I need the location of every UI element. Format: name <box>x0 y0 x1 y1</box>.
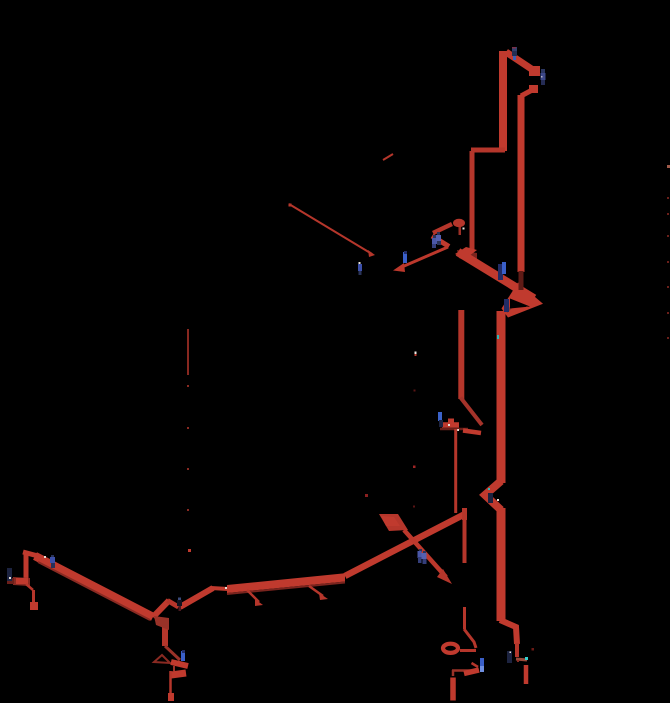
wire: chevron jog A8 <box>485 481 501 510</box>
wire: loop diagonal J2 <box>464 629 476 648</box>
wire: rise G4 <box>180 588 213 607</box>
node: right edge dots <box>667 165 670 339</box>
wire: small stub above cluster <box>472 663 479 667</box>
wire: big diagonal dark under edge <box>38 562 150 620</box>
wire: open triangle H3 <box>154 655 170 663</box>
wire: spur2 foot <box>319 593 328 600</box>
wire: spur2 F6 <box>309 586 323 596</box>
wire: horizontal jog A3 <box>471 148 505 153</box>
wire: main vertical pipe A7 lower <box>497 508 506 621</box>
wire: thin vertical E1 <box>458 310 464 399</box>
wire: loop horizontal J3 <box>460 649 476 652</box>
wire: cluster horizontal K1 <box>452 669 472 672</box>
wire: line2 vertical B2 <box>518 95 525 272</box>
node: white speck at blob <box>463 228 465 230</box>
figure: on bottom bar <box>181 650 185 661</box>
figure: at top apex <box>512 47 517 60</box>
figure: horizontal bar end <box>438 412 443 427</box>
node: white speck bar2 <box>457 429 459 431</box>
node: white-red speck <box>415 352 417 355</box>
node: white speck bar1 <box>448 424 450 426</box>
wire: thin vertical J1 <box>463 607 466 629</box>
node: fall dots col x414 <box>414 390 416 392</box>
node: far left head dot <box>9 577 11 579</box>
wire: V branch H1 <box>162 618 168 646</box>
figure: far left navy <box>7 568 12 581</box>
wire: small vertical G10 <box>32 590 35 603</box>
wire: crossing arrow start blob F3a <box>379 514 408 531</box>
wire: thin vertical I1 <box>463 516 467 563</box>
wire: thin diagonal foot <box>368 250 375 257</box>
wire: line2 hook B1 <box>521 89 534 96</box>
node: fall dot bright <box>188 549 191 552</box>
wire: loop ring J4 <box>443 644 458 653</box>
wire: crossing arrow bright part <box>381 516 400 526</box>
wire: hairpin black notch <box>510 299 530 309</box>
wire: line2 hook end block <box>529 85 538 93</box>
figure: chevron navy <box>488 493 493 503</box>
figure: standalone left <box>358 262 362 275</box>
node: red dot in notch <box>526 307 528 309</box>
wire: plateau G5 <box>211 588 228 589</box>
node: cyan speck bottom hook <box>525 657 528 660</box>
wire: foot blob G11 <box>30 602 38 610</box>
figure: on notch <box>177 598 182 612</box>
wire: thick bar2 H6 <box>171 673 186 675</box>
figure: right of top diagonal <box>541 69 546 85</box>
wire: steep diagonal F1 <box>345 515 464 577</box>
figure: near bottom jog navy <box>507 651 512 663</box>
figure: on big left diagonal <box>50 555 55 568</box>
wire: crossing arrowhead F3c <box>437 569 452 584</box>
node: dim red dot mid <box>365 494 368 497</box>
wire: fat stub K2 <box>464 670 479 674</box>
wire: bottom jog A9 <box>500 620 517 644</box>
wire: gentle path F4 <box>227 573 345 593</box>
figure: on arrow shaft <box>403 251 407 263</box>
wire: small dash D2 <box>383 154 393 160</box>
wire: line2 dark lower <box>519 271 524 290</box>
wire: thin vertical E6 <box>454 429 457 513</box>
wire: left top bar G5b <box>23 552 38 556</box>
wire: left junction blob G7 <box>13 577 30 586</box>
node: cyan speck on pipe <box>497 335 499 339</box>
wire: bottom narrow A9b <box>515 643 519 657</box>
wire: big diagonal A5 <box>458 252 534 299</box>
wire: notch step G3 <box>168 601 179 608</box>
wire: main vertical pipe A1 top <box>499 51 507 151</box>
wire: thin diag G9 <box>26 584 33 590</box>
node: white speck chevron <box>497 499 499 501</box>
wire: connector H5 <box>173 666 175 671</box>
figure: bottom middle blue <box>480 658 484 672</box>
wire: gentle path under-edge <box>227 583 345 595</box>
wire: bottom thin vertical H7 <box>169 671 172 694</box>
node: fall dots <box>187 385 189 511</box>
node: red dot below hook <box>517 660 519 662</box>
node: dark speck right of ring <box>532 648 535 651</box>
wire: bottom hook A9c <box>516 659 527 660</box>
wire: junction bend bright <box>455 247 477 259</box>
wire: top bend diagonal A2 <box>506 52 536 72</box>
node: white speck plateau <box>225 587 227 589</box>
figure: at hairpin <box>504 299 509 312</box>
wire: diagonal top edge block F2 <box>462 508 467 520</box>
node: white speck left bar <box>44 556 46 558</box>
wire: main vertical pipe A7 upper <box>497 311 506 483</box>
wire: Z band lower C1b <box>432 236 449 247</box>
wire: hairpin dark stripe <box>507 303 517 313</box>
wire: arrow shaft C2 <box>403 247 448 267</box>
wire: V rise G2 <box>153 601 169 618</box>
wire: disconnected bottom segment A10 <box>524 665 529 684</box>
wire: blob drip <box>459 227 462 235</box>
figure: pair at junction <box>432 232 441 248</box>
wire: big left diagonal G1 <box>35 556 153 617</box>
wire: crossing arrow shaft F3b <box>404 530 446 577</box>
wire: vertical pipe A4 <box>470 151 475 252</box>
wire: thick bar1 H4 <box>171 662 188 666</box>
wire: right bar E4d <box>463 431 481 434</box>
wire: left stub dark G8 <box>7 578 14 584</box>
wire: hairpin wedge A6 <box>502 283 544 318</box>
node: dot at diagonal start <box>289 204 292 207</box>
wire: bar dark under-edge <box>440 428 468 431</box>
node: teal speck chevron <box>488 488 490 490</box>
wire: bottom foot H7b <box>168 693 174 701</box>
wire: left vertical G6 <box>24 554 29 580</box>
wire: cluster left drop K1b <box>452 670 455 676</box>
figure: at X crossing <box>418 549 427 564</box>
wire: horizontal bar E4a <box>442 422 459 428</box>
wire: spur1 foot <box>255 599 263 606</box>
wire: dashed fall line L1 solid <box>187 329 189 375</box>
wire: junction bend dark face C4 <box>457 250 477 266</box>
wire: top diagonal end block <box>529 66 540 76</box>
wire: left junction bright <box>16 578 28 584</box>
wire: jog diagonal E2 <box>461 398 483 426</box>
wire: bar bump <box>448 419 454 424</box>
wire: branch diagonal H2 <box>165 646 180 660</box>
wire: bottom vertical K4 <box>450 678 456 701</box>
wire: V bottom corner face <box>154 616 169 630</box>
wire: Z band upper C1a <box>433 224 452 233</box>
wire: spur1 F5 <box>247 590 259 602</box>
wire: long thin diagonal D <box>289 204 372 254</box>
figure: on big diagonal pair <box>498 262 506 280</box>
wire: arrowhead C3 <box>393 263 405 272</box>
wire: small blob at 459,223 <box>453 219 465 227</box>
